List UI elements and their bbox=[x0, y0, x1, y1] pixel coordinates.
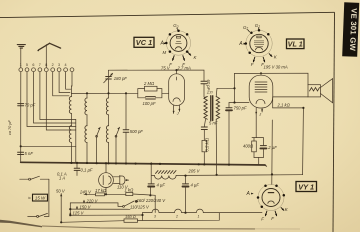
svg-text:A: A bbox=[238, 41, 243, 47]
svg-text:60 pF: 60 pF bbox=[206, 80, 211, 91]
svg-text:6: 6 bbox=[32, 63, 34, 67]
svg-text:75 V: 75 V bbox=[161, 66, 171, 71]
svg-text:50 V: 50 V bbox=[56, 188, 66, 193]
svg-text:125 V: 125 V bbox=[73, 211, 85, 216]
svg-text:ca 70 pF: ca 70 pF bbox=[8, 120, 12, 135]
svg-text:F: F bbox=[169, 62, 172, 67]
svg-text:2,7 mA: 2,7 mA bbox=[177, 66, 191, 71]
svg-text:2 MΩ: 2 MΩ bbox=[143, 81, 155, 86]
svg-text:240 V: 240 V bbox=[79, 189, 92, 194]
svg-text:7: 7 bbox=[39, 63, 41, 67]
svg-text:0,1 µF: 0,1 µF bbox=[81, 168, 93, 173]
svg-text:180 pF: 180 pF bbox=[114, 76, 127, 81]
svg-text:2,1 kΩ: 2,1 kΩ bbox=[277, 102, 291, 107]
svg-text:A: A bbox=[246, 191, 251, 197]
svg-text:17 kΩ: 17 kΩ bbox=[95, 188, 107, 193]
svg-text:J: J bbox=[258, 113, 261, 117]
svg-text:VL 1: VL 1 bbox=[288, 39, 303, 48]
svg-text:150 V: 150 V bbox=[80, 205, 92, 210]
svg-text:0,5 MΩ: 0,5 MΩ bbox=[205, 137, 210, 151]
svg-text:VC 1: VC 1 bbox=[136, 38, 152, 47]
svg-text:1 A: 1 A bbox=[59, 176, 65, 181]
svg-text:4 µF: 4 µF bbox=[157, 183, 166, 188]
svg-text:160/: 160/ bbox=[137, 198, 146, 203]
svg-text:150 Ω: 150 Ω bbox=[125, 214, 136, 219]
svg-text:220 V: 220 V bbox=[86, 198, 99, 203]
svg-text:3: 3 bbox=[154, 215, 156, 219]
svg-text:110 V: 110 V bbox=[117, 184, 129, 189]
svg-text:750 pF: 750 pF bbox=[234, 106, 247, 111]
svg-text:70 pF: 70 pF bbox=[25, 102, 36, 107]
svg-text:5 nF: 5 nF bbox=[209, 121, 218, 126]
svg-text:195 V 30 mA: 195 V 30 mA bbox=[264, 65, 288, 70]
svg-text:15 W: 15 W bbox=[35, 196, 46, 201]
svg-text:G2: G2 bbox=[173, 23, 178, 29]
svg-text:A: A bbox=[160, 41, 165, 47]
svg-text:M: M bbox=[163, 50, 167, 55]
svg-text:110/125 V: 110/125 V bbox=[130, 205, 150, 210]
svg-text:8: 8 bbox=[45, 63, 47, 67]
svg-text:4: 4 bbox=[65, 63, 67, 67]
svg-text:220/240 V: 220/240 V bbox=[145, 198, 166, 203]
svg-text:100 pF: 100 pF bbox=[143, 101, 156, 106]
svg-text:VE 301 GW: VE 301 GW bbox=[348, 8, 359, 52]
svg-text:VY 1: VY 1 bbox=[298, 183, 314, 192]
svg-text:F: F bbox=[271, 216, 274, 221]
svg-text:2: 2 bbox=[175, 215, 178, 219]
svg-text:5 nF: 5 nF bbox=[25, 151, 34, 156]
svg-text:4 µF: 4 µF bbox=[191, 183, 200, 188]
svg-text:5: 5 bbox=[26, 63, 28, 67]
svg-text:3: 3 bbox=[58, 63, 60, 67]
svg-text:F: F bbox=[261, 217, 264, 222]
svg-text:≈: ≈ bbox=[28, 196, 31, 202]
svg-text:2 µF: 2 µF bbox=[267, 145, 277, 150]
svg-text:500 pF: 500 pF bbox=[130, 129, 143, 134]
svg-text:1: 1 bbox=[198, 215, 200, 219]
svg-text:205 V: 205 V bbox=[188, 168, 201, 173]
svg-text:F: F bbox=[251, 62, 254, 67]
svg-text:400Ω: 400Ω bbox=[243, 144, 254, 149]
svg-text:J: J bbox=[176, 112, 179, 116]
svg-text:2: 2 bbox=[52, 63, 54, 67]
svg-text:1:n: 1:n bbox=[207, 90, 213, 95]
svg-text:G1: G1 bbox=[255, 23, 260, 29]
svg-text:1: 1 bbox=[20, 63, 22, 67]
